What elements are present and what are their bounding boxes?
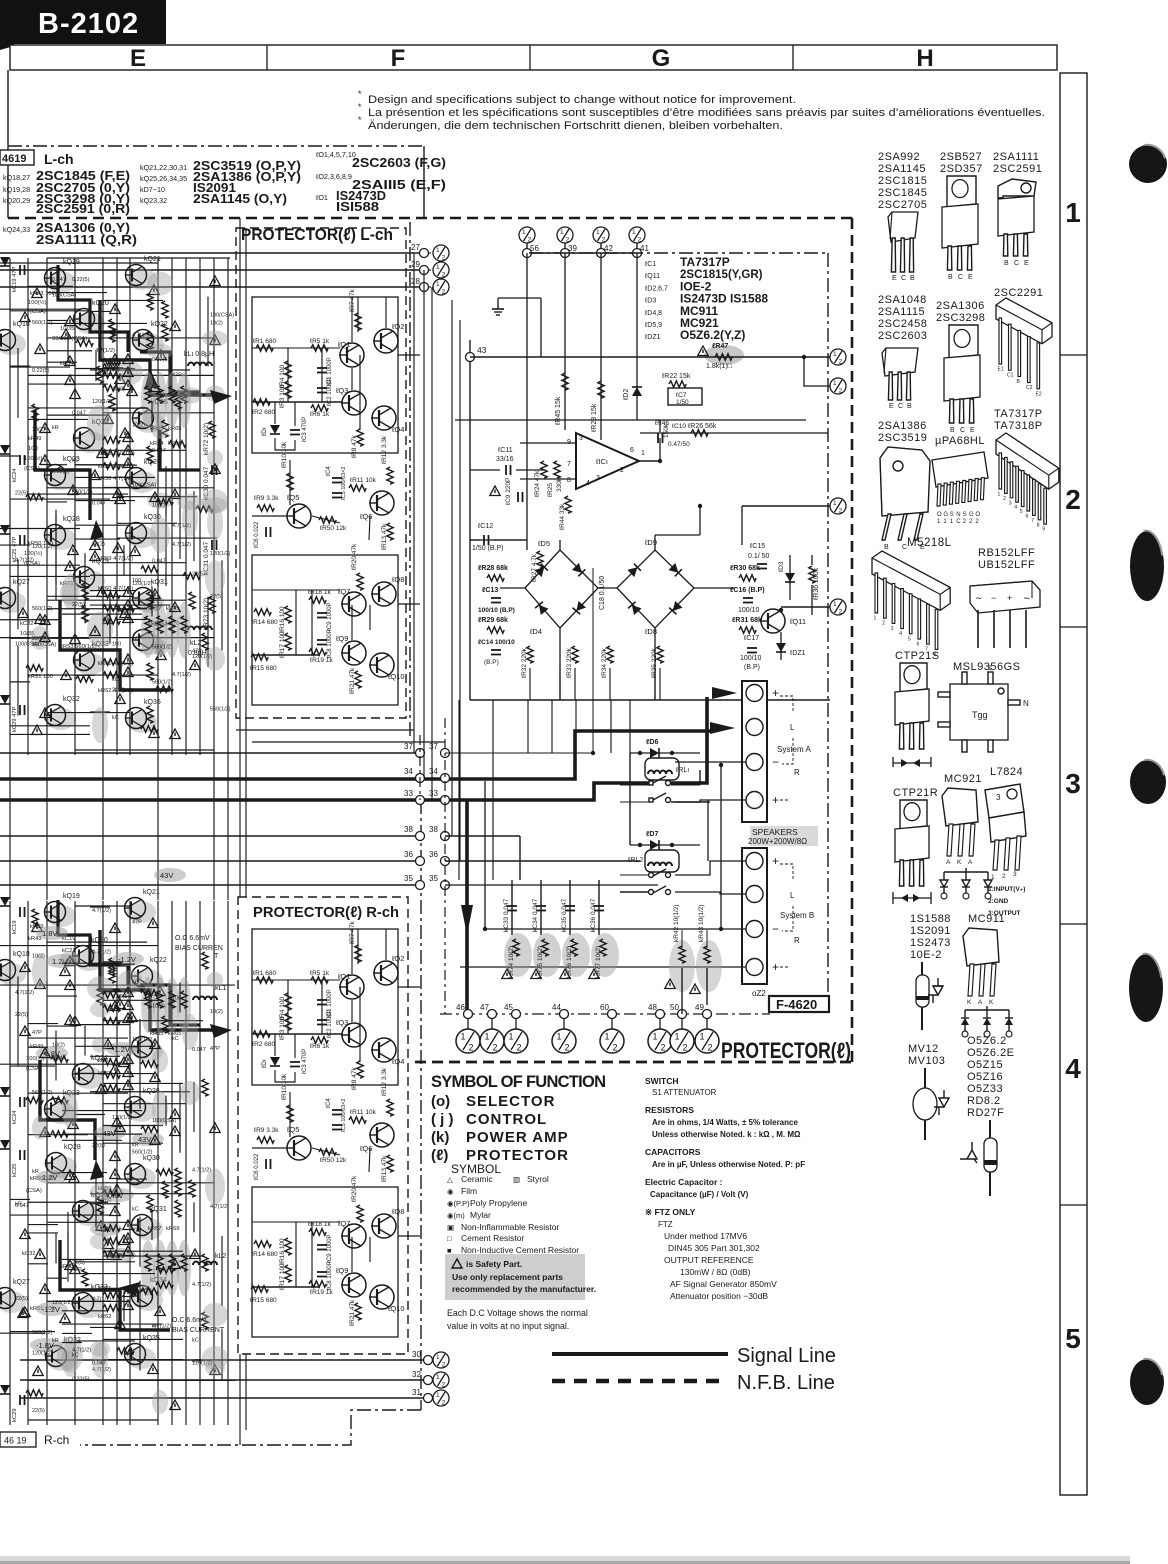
transistor kQ34	[133, 1289, 163, 1311]
protector R-ch inner box lower	[252, 1187, 398, 1337]
svg-text:34: 34	[429, 767, 438, 776]
voltage label -43V	[90, 1222, 122, 1236]
svg-text:31: 31	[412, 1388, 421, 1397]
transistor kQ28	[47, 1156, 77, 1178]
safety triangle near kQ20	[61, 329, 71, 339]
svg-text:4.7(1/2): 4.7(1/2)	[92, 908, 111, 914]
package SIP9 TA7317P	[996, 433, 1059, 489]
svg-text:−: −	[991, 593, 996, 603]
safety triangle near kQ23	[68, 485, 78, 495]
transistor ℓQ4 (L-ch)	[371, 406, 396, 430]
svg-text:560(1/2): 560(1/2)	[32, 1330, 53, 1336]
svg-text:kR: kR	[52, 1338, 59, 1344]
svg-text:37: 37	[404, 742, 413, 751]
svg-text:ℓQ9: ℓQ9	[335, 634, 348, 643]
svg-text:ℓR3 100: ℓR3 100	[279, 1017, 286, 1040]
svg-text:kC: kC	[112, 715, 119, 721]
protector L-ch wires	[252, 347, 340, 349]
svg-text:ℓC1: ℓC1	[644, 261, 656, 268]
svg-text:(CSA): (CSA)	[26, 1188, 42, 1194]
svg-text:(B.P): (B.P)	[744, 664, 760, 671]
safety triangle near kQ25	[120, 428, 130, 438]
left block horizontal rails	[75, 905, 130, 907]
svg-text:ℓR11 10k: ℓR11 10k	[350, 1109, 377, 1116]
svg-text:kR: kR	[32, 1169, 39, 1175]
safety triangle near kQ35	[148, 1364, 158, 1374]
svg-text:10(2): 10(2)	[132, 422, 145, 428]
resistor ℓR17 100 (L-ch)	[285, 633, 291, 650]
resistor ℓR11 10k (R-ch)	[349, 1117, 366, 1123]
svg-text:O5Z16: O5Z16	[967, 1071, 1003, 1083]
parts list box right edge	[423, 146, 425, 218]
L/R brackets B	[780, 864, 793, 880]
svg-text:22(5): 22(5)	[15, 490, 28, 496]
svg-text:kR51 100: kR51 100	[28, 674, 53, 680]
svg-text:ℓR15 680: ℓR15 680	[250, 665, 277, 672]
svg-text:ℓQ7: ℓQ7	[337, 587, 350, 596]
svg-text:ℓC3 470P: ℓC3 470P	[301, 1049, 308, 1074]
svg-text:kC35 0.047: kC35 0.047	[561, 898, 568, 932]
svg-text:3: 3	[579, 435, 583, 442]
svg-text:ℓDı: ℓDı	[261, 1059, 268, 1068]
diode bridge lD9/lD8	[617, 550, 694, 628]
svg-text:R: R	[794, 936, 800, 945]
svg-text:kR53 560(1/2): kR53 560(1/2)	[60, 644, 97, 650]
svg-text:Non-Inflammable Resistor: Non-Inflammable Resistor	[461, 1222, 559, 1232]
svg-text:L: L	[790, 723, 795, 732]
resistor ℓR8 47k (R-ch)	[357, 1061, 363, 1078]
svg-text:45: 45	[504, 1003, 513, 1012]
svg-text:2SA1386: 2SA1386	[878, 420, 927, 432]
resistor kR73	[209, 596, 215, 613]
svg-text:ℓC14 100/10: ℓC14 100/10	[477, 639, 515, 646]
terminal 41 top	[629, 227, 645, 244]
svg-text:22(5): 22(5)	[112, 688, 125, 694]
svg-text:ℓC3 470P: ℓC3 470P	[301, 417, 308, 442]
svg-text:2:GND: 2:GND	[988, 898, 1009, 905]
safety triangle near kQ19	[32, 288, 42, 298]
svg-text:BIAS CURRENT: BIAS CURRENT	[172, 1327, 225, 1334]
svg-text:2SC2291: 2SC2291	[994, 287, 1043, 299]
transistor kQ21	[126, 901, 156, 923]
svg-text:ℓR25: ℓR25	[547, 483, 554, 497]
svg-text:100: 100	[132, 578, 141, 584]
central block dash-dot border top	[529, 252, 828, 254]
svg-text:ℓICı: ℓICı	[595, 457, 608, 466]
svg-text:is Safety Part.: is Safety Part.	[466, 1259, 522, 1269]
svg-text:ℓC8 1000P: ℓC8 1000P	[326, 1261, 333, 1290]
transistor ℓQ10 (L-ch)	[369, 653, 394, 677]
transistor kQ30	[127, 526, 157, 548]
svg-text:ℓD4,8: ℓD4,8	[644, 310, 662, 317]
terminal under 468	[467, 1019, 469, 1029]
svg-text:0.047: 0.047	[92, 501, 106, 507]
protector R-ch inner box upper	[252, 929, 398, 1085]
svg-text:2: 2	[1065, 484, 1081, 515]
svg-text:POWER AMP: POWER AMP	[466, 1129, 569, 1146]
svg-text:22(5): 22(5)	[152, 393, 165, 399]
svg-text:SYMBOL OF FUNCTION: SYMBOL OF FUNCTION	[431, 1073, 606, 1091]
resistor ℓR12 3.3k (L-ch)	[387, 467, 393, 484]
safety note gray box	[445, 1254, 585, 1300]
svg-text:G: G	[943, 512, 948, 518]
op-amp lC1	[576, 433, 639, 489]
svg-text:Capacitance (µF) / Volt (V): Capacitance (µF) / Volt (V)	[650, 1190, 749, 1199]
resistor ℓR2 680 (R-ch)	[253, 1031, 270, 1037]
protector L-ch inner box upper	[252, 297, 398, 453]
svg-text:−: −	[772, 922, 779, 936]
safety triangle near kQ21	[149, 285, 159, 295]
svg-text:kC24: kC24	[12, 1110, 18, 1124]
svg-text:C1: C1	[1007, 373, 1014, 379]
transistor kQ27	[0, 1291, 26, 1313]
resistor ℓR2 680 (L-ch)	[253, 399, 270, 405]
svg-text:4619: 4619	[2, 153, 26, 165]
svg-text:8: 8	[1037, 522, 1040, 528]
central block wires	[455, 419, 806, 421]
svg-text:2SA1145 (O,Y): 2SA1145 (O,Y)	[193, 192, 287, 206]
resistor ℓR15 680 (R-ch)	[251, 1286, 268, 1292]
svg-text:L: L	[790, 891, 795, 900]
svg-text:ℓR16 100: ℓR16 100	[279, 606, 286, 633]
svg-text:22(5): 22(5)	[72, 602, 85, 608]
relay contact feeds	[620, 784, 649, 786]
left block vertical rails	[9, 258, 11, 755]
transistor ℓQ5 (R-ch)	[286, 1136, 311, 1160]
svg-text:MC921: MC921	[944, 773, 982, 785]
svg-text:100/10 (B.P): 100/10 (B.P)	[478, 607, 515, 614]
svg-text:oZ2: oZ2	[752, 989, 766, 998]
svg-text:120(1/2): 120(1/2)	[112, 1115, 133, 1121]
svg-text:10(2): 10(2)	[92, 542, 105, 548]
MC921 diode array	[944, 868, 988, 872]
wire row 33	[416, 796, 425, 805]
resistor ℓR16 100 (L-ch)	[285, 606, 291, 623]
svg-text:MC911: MC911	[968, 913, 1005, 925]
svg-text:E: E	[970, 427, 975, 434]
relay lD7	[630, 844, 700, 846]
svg-text:ℓQ10: ℓQ10	[387, 1304, 405, 1313]
extra triangles	[90, 470, 100, 480]
package TO-92L 2SA1048 group	[882, 348, 918, 376]
svg-text:A: A	[978, 999, 983, 1006]
svg-text:100(CSA): 100(CSA)	[210, 313, 234, 319]
svg-text:Are in ohms, 1/4 Watts, ± 5% t: Are in ohms, 1/4 Watts, ± 5% tolerance	[652, 1118, 798, 1127]
resistor lR44 33k	[565, 496, 571, 513]
svg-text:ℓR14 680: ℓR14 680	[251, 619, 278, 626]
voltage label 0.6V	[104, 1248, 136, 1262]
svg-text:O.C 6.6mV: O.C 6.6mV	[172, 1317, 207, 1324]
package axial zener	[989, 1120, 991, 1196]
resistor ℓR13 47k (R-ch)	[387, 1155, 393, 1172]
diode lD3	[789, 555, 791, 600]
svg-text:Attenuator position −30dB: Attenuator position −30dB	[670, 1291, 768, 1301]
left sheet border	[7, 70, 9, 218]
svg-text:0.22(5): 0.22(5)	[72, 1377, 90, 1383]
package SIP5 2SC2291	[996, 298, 1052, 344]
svg-text:Styrol: Styrol	[527, 1174, 549, 1184]
svg-text:O.C 6.6mV: O.C 6.6mV	[175, 935, 210, 942]
svg-text:47P: 47P	[192, 649, 202, 655]
svg-text:ℓDZ1: ℓDZ1	[644, 334, 661, 341]
extra density wires	[90, 369, 190, 371]
svg-text:A: A	[968, 859, 973, 866]
svg-text:kC36 0.047: kC36 0.047	[590, 898, 597, 932]
resistor ℓR16 100 (R-ch)	[285, 1238, 291, 1255]
svg-text:B: B	[950, 427, 955, 434]
diode kD10	[0, 695, 10, 704]
wire row 35	[0, 884, 420, 886]
svg-text:MV103: MV103	[908, 1055, 945, 1067]
transistor ℓQ3 (L-ch)	[341, 391, 366, 415]
svg-text:35: 35	[404, 874, 413, 883]
CTP21S diode pair	[893, 757, 931, 767]
CTP21R diode pair	[893, 892, 931, 904]
capacitor ℓC1 1000P (L-ch)	[317, 368, 327, 373]
svg-text:kQ24,33: kQ24,33	[3, 225, 30, 234]
svg-text:ℓQ5: ℓQ5	[286, 493, 299, 502]
svg-text:22(5): 22(5)	[72, 1260, 85, 1266]
protector L-ch dashed box	[236, 228, 406, 718]
resistor ℓR9 3.3k (R-ch)	[257, 1137, 274, 1143]
capacitor ℓC1 1000P (R-ch)	[317, 1000, 327, 1005]
terminal 9/2	[830, 378, 846, 395]
svg-text:H: H	[916, 45, 933, 72]
capacitor kC29	[20, 1395, 25, 1405]
verticals between protector and central block	[413, 253, 415, 753]
svg-text:SWITCH: SWITCH	[645, 1076, 679, 1086]
svg-text:∼: ∼	[1023, 593, 1031, 603]
central block outline left	[469, 340, 471, 700]
svg-text:ℓO1: ℓO1	[315, 193, 328, 202]
svg-text:kR64: kR64	[150, 441, 164, 447]
capacitors lC4 lC5 (R-ch)	[332, 1110, 342, 1115]
svg-text:100(CSA): 100(CSA)	[52, 293, 76, 299]
resistor ℓR35 220k	[657, 646, 663, 663]
grid header bar	[10, 45, 1057, 70]
thick arrows in left blocks	[210, 390, 232, 404]
diode lD1 (L-ch)	[270, 425, 280, 434]
svg-text:ℓQ11: ℓQ11	[644, 273, 660, 280]
left block vertical rails	[9, 901, 11, 1425]
capacitor kC36	[598, 880, 600, 935]
op-amp wires	[520, 442, 576, 444]
resistor ℓR50 12k (L-ch)	[319, 517, 336, 523]
svg-text:ℓR16 100: ℓR16 100	[279, 1238, 286, 1265]
svg-text:B: B	[907, 403, 912, 410]
voltage label 1.2V	[46, 954, 78, 968]
resistor kR77 10(2)	[591, 933, 619, 977]
svg-text:E: E	[889, 403, 894, 410]
svg-text:OUTPUT REFERENCE: OUTPUT REFERENCE	[664, 1255, 754, 1265]
svg-text:K: K	[957, 859, 962, 866]
resistor bank blobs lower	[141, 977, 155, 1033]
resistor ℓR50 12k (R-ch)	[319, 1149, 336, 1155]
svg-text:2SA1048: 2SA1048	[878, 294, 927, 306]
safety triangle near kQ29	[96, 1221, 106, 1231]
svg-text:C: C	[958, 274, 963, 281]
svg-text:kQ18,27: kQ18,27	[3, 173, 30, 182]
thick bus from amp to speakers	[0, 731, 710, 779]
svg-text:ℓR20 47k: ℓR20 47k	[351, 1175, 358, 1202]
svg-text:ℓQ3: ℓQ3	[335, 386, 348, 395]
capacitor kC24	[20, 1097, 25, 1107]
svg-text:ℓR6 1k: ℓR6 1k	[310, 411, 330, 418]
svg-text:recommended by the manufacture: recommended by the manufacturer.	[452, 1284, 596, 1294]
horizontal rails below L-ch protector	[236, 729, 414, 731]
svg-text:100: 100	[28, 446, 38, 452]
transistor kQ32	[46, 708, 76, 730]
svg-text:3: 3	[1009, 500, 1012, 506]
svg-text:kQ20,29: kQ20,29	[3, 196, 30, 205]
svg-text:4.7(1/2): 4.7(1/2)	[192, 1168, 211, 1174]
4619 R-ch label box	[0, 1432, 36, 1447]
capacitor ℓC9 1000P (L-ch)	[317, 613, 327, 618]
package MC921	[942, 788, 978, 826]
transistor ℓQ7 (L-ch)	[341, 592, 366, 616]
svg-text:36: 36	[429, 850, 438, 859]
svg-text:100/10: 100/10	[740, 655, 762, 662]
title block B-2102	[8, 0, 166, 44]
svg-text:2SC2603: 2SC2603	[878, 330, 927, 342]
svg-text:1S2473: 1S2473	[910, 937, 951, 949]
svg-text:2SA992: 2SA992	[878, 151, 920, 163]
svg-text:ℓQ9: ℓQ9	[335, 1266, 348, 1275]
svg-text:kL2: kL2	[215, 1253, 226, 1260]
svg-text:kQ32: kQ32	[63, 696, 80, 703]
svg-text:10(2): 10(2)	[210, 321, 223, 327]
transistor ℓQ2 (L-ch)	[373, 329, 398, 353]
svg-text:9: 9	[1042, 527, 1045, 533]
svg-text:La présention et les spécifica: La présention et les spécifications sont…	[368, 107, 1045, 119]
package CTP21S	[900, 663, 927, 692]
resistor ℓR21 47k (L-ch)	[355, 671, 361, 688]
svg-text:3: 3	[1013, 871, 1017, 878]
svg-text:◉(P.P): ◉(P.P)	[447, 1199, 470, 1208]
svg-text:G: G	[969, 512, 974, 518]
inductor kL1	[188, 363, 212, 367]
rail T/2	[742, 505, 830, 507]
transistor ℓQ8 (L-ch)	[371, 582, 396, 606]
svg-text:K: K	[989, 999, 994, 1006]
extra triangles	[65, 1260, 75, 1270]
System B terminal strip	[742, 848, 767, 984]
capacitor kC29 47P	[20, 705, 25, 715]
wire 28	[0, 286, 424, 288]
extra blobs	[152, 1390, 168, 1414]
svg-text:10(2): 10(2)	[52, 1042, 65, 1048]
svg-text:ℓQ11: ℓQ11	[789, 617, 806, 626]
svg-text:∼: ∼	[975, 593, 983, 603]
svg-text:47: 47	[480, 1003, 489, 1012]
svg-text:100(CSA): 100(CSA)	[132, 483, 156, 489]
capacitors lC4 lC5 (L-ch)	[332, 478, 342, 483]
svg-text:BIAS CURREN: BIAS CURREN	[175, 945, 223, 952]
relay contacts A	[649, 781, 653, 785]
svg-text:50: 50	[670, 1003, 679, 1012]
wire row 36	[0, 860, 420, 862]
svg-text:G: G	[652, 45, 671, 72]
svg-text:(B.P): (B.P)	[484, 659, 499, 666]
svg-text:100(½): 100(½)	[28, 299, 46, 306]
transistor lQ11	[760, 609, 785, 633]
svg-text:560(1/2): 560(1/2)	[210, 706, 231, 712]
svg-text:0.22(5): 0.22(5)	[72, 277, 90, 283]
svg-text:ℓQ7: ℓQ7	[337, 1219, 350, 1228]
svg-text:ℓD5: ℓD5	[537, 539, 550, 548]
transistor kQ31	[133, 1218, 163, 1240]
svg-text:47P: 47P	[210, 1046, 220, 1052]
svg-text:120(1/2): 120(1/2)	[52, 1300, 73, 1306]
svg-text:ℓR5 1k: ℓR5 1k	[310, 338, 330, 345]
svg-text:0.047: 0.047	[52, 277, 66, 283]
svg-text:ℓQ4: ℓQ4	[391, 425, 404, 434]
relay coil lRL2	[645, 850, 679, 872]
svg-text:22(5): 22(5)	[15, 1296, 28, 1302]
transistor kQ18	[0, 333, 26, 355]
svg-text:43: 43	[477, 345, 487, 355]
svg-text:+: +	[772, 854, 779, 868]
diode lD1 (R-ch)	[270, 1057, 280, 1066]
svg-text:ℓD2,6,7: ℓD2,6,7	[644, 285, 668, 292]
resistor ℓR3 100 (L-ch)	[285, 381, 291, 398]
svg-text:kC32: kC32	[22, 1251, 36, 1257]
svg-text:N.F.B. Line: N.F.B. Line	[737, 1372, 835, 1394]
svg-text:kR49: kR49	[28, 436, 42, 442]
svg-text:560(1/2): 560(1/2)	[152, 680, 173, 686]
transistor kQ25	[134, 411, 164, 433]
resistor kR72	[209, 421, 215, 438]
capacitor kC24	[20, 455, 25, 465]
svg-text:ℓQ2: ℓQ2	[391, 322, 404, 331]
transistor ℓQ5 (L-ch)	[286, 504, 311, 528]
svg-text:29: 29	[411, 260, 420, 269]
svg-text:ℓR44 33k: ℓR44 33k	[559, 503, 566, 530]
voltage label 43V	[154, 868, 186, 882]
extra density wires	[28, 1037, 128, 1039]
parts list box 4619 L-ch	[0, 150, 34, 165]
transistor ℓQ4 (R-ch)	[371, 1038, 396, 1062]
resistor ℓR7 47k (R-ch)	[355, 945, 361, 962]
more thick segs lower	[58, 900, 128, 985]
resistor kR75 10(2)	[533, 933, 561, 977]
svg-text:38: 38	[429, 825, 438, 834]
svg-text:3: 3	[1065, 768, 1081, 799]
svg-text:L7824: L7824	[990, 766, 1023, 778]
svg-text:(CSA): (CSA)	[26, 1066, 42, 1072]
safety triangle near kQ30	[112, 1184, 122, 1194]
drop to 9/2	[804, 357, 830, 386]
svg-text:kR69: kR69	[166, 1226, 180, 1232]
svg-text:C: C	[960, 427, 965, 434]
binding holes	[1129, 145, 1167, 183]
svg-text:43V: 43V	[160, 871, 173, 880]
svg-text:1.8V: 1.8V	[42, 929, 57, 938]
svg-text:100/10: 100/10	[738, 607, 760, 614]
terminal under 612	[611, 1019, 613, 1029]
riser from relays	[484, 781, 486, 929]
extra resistors	[82, 605, 88, 622]
svg-text:E1: E1	[998, 367, 1004, 373]
transistor kQ22	[133, 969, 163, 991]
svg-text:O5Z6.2E: O5Z6.2E	[967, 1047, 1015, 1059]
capacitor kC19 47P	[20, 265, 25, 275]
svg-text:TA7318P: TA7318P	[994, 420, 1043, 432]
verticals between protector boxes	[239, 218, 241, 897]
svg-text:ℓR12 3.3k: ℓR12 3.3k	[381, 435, 388, 464]
svg-text:E: E	[968, 274, 973, 281]
svg-text:ℓR11 10k: ℓR11 10k	[350, 477, 377, 484]
